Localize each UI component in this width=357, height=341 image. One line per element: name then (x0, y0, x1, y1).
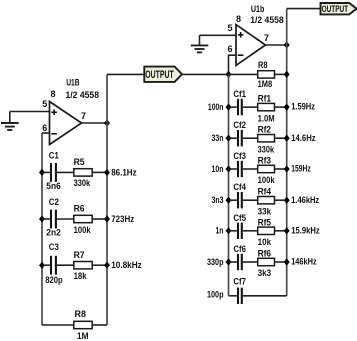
svg-text:1n: 1n (216, 226, 224, 236)
svg-text:Cf6: Cf6 (233, 244, 246, 254)
capacitor Cf4 (229, 192, 258, 208)
svg-text:6: 6 (42, 123, 47, 133)
svg-text:1M: 1M (77, 331, 89, 341)
svg-text:2n2: 2n2 (46, 228, 61, 238)
junction node Cf5 left (226, 227, 232, 234)
svg-text:15.9kHz: 15.9kHz (291, 225, 320, 235)
svg-text:R7: R7 (74, 250, 85, 260)
wire right bus to OUTPUT tag (107, 73, 144, 75)
junction U1b feedback node (226, 71, 232, 78)
svg-text:7: 7 (264, 33, 269, 43)
svg-text:OUTPUT: OUTPUT (322, 4, 349, 15)
wire GND2 to U1b pin 5 (+) (200, 34, 237, 36)
svg-text:Rf3: Rf3 (258, 156, 272, 166)
svg-text:Rf5: Rf5 (258, 217, 272, 227)
junction node Cf6 right (284, 258, 290, 265)
svg-text:R6: R6 (74, 204, 85, 214)
capacitor C3 (42, 256, 74, 275)
svg-text:R8: R8 (258, 60, 268, 70)
junction node Cf6 left (226, 258, 232, 265)
junction R8 right node (284, 71, 290, 78)
junction node C3 right (104, 262, 110, 269)
svg-text:1M8: 1M8 (258, 79, 273, 89)
capacitor Cf6 (229, 254, 258, 270)
svg-text:159Hz: 159Hz (291, 164, 311, 174)
junction node Cf1 right (284, 104, 290, 111)
svg-text:Rf2: Rf2 (258, 125, 272, 135)
junction node Cf2 right (284, 135, 290, 142)
svg-text:146kHz: 146kHz (291, 257, 317, 267)
wire right bus to OUTPUT tag 2 (287, 8, 321, 10)
svg-text:1/2 4558: 1/2 4558 (250, 15, 284, 25)
capacitor Cf7 (229, 288, 287, 304)
resistor R5 (74, 169, 107, 176)
svg-text:330p: 330p (207, 257, 224, 267)
capacitor Cf2 (229, 130, 258, 146)
svg-text:3k3: 3k3 (258, 268, 272, 278)
svg-text:5: 5 (42, 99, 47, 109)
resistor Rf2 (258, 135, 287, 142)
capacitor C2 (42, 210, 74, 229)
svg-text:1.59Hz: 1.59Hz (291, 102, 315, 112)
junction U1b output node (284, 41, 290, 48)
capacitor Cf5 (229, 223, 258, 239)
junction node Cf3 left (226, 165, 232, 172)
svg-text:1.0M: 1.0M (258, 113, 275, 123)
svg-text:Cf2: Cf2 (233, 120, 246, 130)
junction node Cf1 left (226, 104, 232, 111)
resistor R7 (74, 262, 107, 269)
svg-text:Cf5: Cf5 (233, 213, 246, 223)
junction node C1 right (104, 169, 110, 176)
svg-text:86.1Hz: 86.1Hz (111, 167, 137, 177)
svg-text:Rf4: Rf4 (258, 187, 272, 197)
svg-text:Rf6: Rf6 (258, 249, 272, 259)
resistor R8 (74, 321, 107, 328)
svg-text:OUTPUT: OUTPUT (145, 69, 174, 81)
svg-text:18k: 18k (74, 271, 88, 281)
wire R8 feedback left lead (229, 73, 258, 75)
junction node C1 left (39, 169, 45, 176)
svg-text:100p: 100p (207, 290, 224, 300)
svg-text:R8: R8 (75, 309, 87, 319)
svg-text:5n6: 5n6 (46, 181, 61, 191)
svg-text:330k: 330k (74, 178, 91, 188)
junction node Cf5 right (284, 227, 290, 234)
svg-text:100n: 100n (208, 102, 224, 112)
svg-text:10n: 10n (212, 164, 224, 174)
resistor R8 (feedback) (258, 71, 287, 78)
resistor Rf4 (258, 197, 287, 204)
svg-text:C1: C1 (49, 151, 59, 161)
wire GND1 to U1B pin 5 (+) (10, 111, 50, 113)
svg-text:Cf3: Cf3 (233, 151, 246, 161)
svg-text:10.8kHz: 10.8kHz (111, 260, 142, 270)
junction node C2 right (104, 215, 110, 222)
svg-text:U1B: U1B (66, 78, 80, 88)
svg-text:Cf1: Cf1 (233, 89, 246, 99)
svg-text:Rf1: Rf1 (258, 94, 272, 104)
svg-text:U1b: U1b (251, 4, 265, 14)
op-amp U1b (236, 25, 266, 66)
svg-text:33k: 33k (258, 206, 272, 216)
junction node Cf2 left (226, 135, 232, 142)
capacitor C1 (42, 163, 74, 182)
wire left bus (41, 133, 43, 325)
svg-text:Cf4: Cf4 (233, 182, 246, 192)
capacitor Cf1 (229, 99, 258, 115)
ground GND1 (1, 112, 19, 131)
OUTPUT tag 1 (144, 67, 182, 82)
svg-text:723Hz: 723Hz (111, 214, 134, 224)
svg-text:1.46kHz: 1.46kHz (291, 195, 319, 205)
resistor R6 (74, 215, 107, 222)
svg-text:100k: 100k (258, 175, 276, 185)
svg-text:33n: 33n (212, 133, 224, 143)
wire U1b pin 6 stub (229, 55, 237, 74)
junction node Cf4 right (284, 197, 290, 204)
wire right bus (106, 74, 108, 325)
junction node Cf3 right (284, 165, 290, 172)
wire U1b output pin 7 (266, 44, 287, 46)
wire bottom left segment (42, 324, 74, 326)
wire right bus (U1b) (286, 9, 288, 296)
resistor Rf5 (258, 227, 287, 234)
svg-text:Cf7: Cf7 (233, 277, 246, 287)
svg-text:C2: C2 (49, 197, 59, 207)
svg-text:10k: 10k (258, 237, 272, 247)
wire left bus (U1b) (228, 74, 230, 295)
svg-text:100k: 100k (74, 225, 92, 235)
svg-text:1/2 4558: 1/2 4558 (66, 90, 100, 100)
junction U1B output node (104, 119, 110, 126)
wire U1B pin 6 stub (42, 132, 50, 134)
junction node C2 left (39, 215, 45, 222)
svg-text:330k: 330k (258, 144, 275, 154)
capacitor Cf3 (229, 161, 258, 177)
wire OUTPUT tag to U1b net (182, 73, 229, 75)
svg-text:820p: 820p (45, 275, 63, 285)
svg-text:7: 7 (81, 111, 86, 121)
op-amp U1B (50, 102, 82, 145)
svg-text:C3: C3 (49, 242, 59, 252)
wire U1B output pin 7 (82, 122, 108, 124)
OUTPUT tag 2 (321, 3, 357, 15)
junction node Cf4 left (226, 197, 232, 204)
svg-text:3n3: 3n3 (212, 195, 224, 205)
junction node C3 left (39, 262, 45, 269)
svg-text:8: 8 (236, 14, 241, 24)
ground GND2 (191, 35, 209, 52)
resistor Rf3 (258, 165, 287, 172)
svg-text:14.6Hz: 14.6Hz (291, 133, 316, 143)
svg-text:R5: R5 (74, 157, 85, 167)
resistor Rf6 (258, 258, 287, 265)
resistor Rf1 (258, 103, 287, 110)
svg-text:5: 5 (227, 23, 232, 33)
svg-text:6: 6 (227, 44, 232, 54)
svg-text:8: 8 (50, 89, 55, 99)
